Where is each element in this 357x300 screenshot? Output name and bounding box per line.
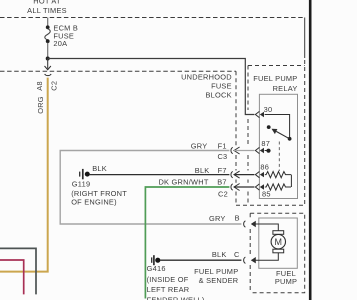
svg-text:LEFT REAR: LEFT REAR — [147, 285, 190, 294]
wire dashed fuse block right boundary x=236 — [235, 71, 237, 205]
svg-text:& SENDER: & SENDER — [199, 276, 239, 285]
svg-text:86: 86 — [260, 162, 269, 171]
ground G119 — [71, 164, 127, 206]
svg-text:G119: G119 — [72, 179, 91, 188]
node UNDERHOOD FUSE BLOCK label — [181, 73, 232, 100]
svg-text:ORG: ORG — [36, 96, 45, 114]
node FUEL PUMP & SENDER label — [194, 267, 238, 285]
svg-text:FUEL PUMP: FUEL PUMP — [253, 74, 297, 83]
connector pin C (cup + arrow) — [212, 250, 256, 263]
pin 86 connector arrows and relay coil top — [255, 162, 291, 177]
svg-text:C2: C2 — [50, 81, 59, 91]
fuse F1 ECM B 20A — [45, 18, 78, 59]
relay K1 dashed outline — [248, 65, 305, 67]
wire dark gray circuit bottom left — [0, 248, 36, 294]
connector pin B (cup + arrow) — [209, 214, 256, 228]
node switch throw contact — [267, 125, 271, 129]
resistor coil 86 zigzag — [265, 172, 291, 178]
svg-text:BLK: BLK — [212, 250, 227, 259]
wire dashed bottom edge of relay area y=205.3 — [236, 204, 305, 206]
wire GRY loop from F1 down and to fuel pump B — [60, 151, 241, 225]
connector C2 pin B7 (cup + arrow) — [158, 177, 239, 198]
svg-text:A8: A8 — [35, 81, 44, 91]
svg-text:OF ENGINE): OF ENGINE) — [71, 198, 117, 207]
wire pump B to motor — [255, 224, 278, 231]
svg-text:C2: C2 — [218, 190, 228, 199]
connector pin F7 (cup + arrow) — [195, 166, 240, 178]
svg-text:(INSIDE OF: (INSIDE OF — [147, 275, 189, 284]
svg-text:UNDERHOOD: UNDERHOOD — [181, 73, 232, 82]
node FUEL PUMP RELAY label — [253, 74, 297, 93]
node HOT AT ALL TIMES label — [27, 0, 67, 15]
wire pump C to motor — [255, 253, 278, 260]
pin 87 connector arrows and terminal — [255, 139, 270, 153]
connector C3 pin F1 (cup + arrow) — [191, 141, 240, 161]
svg-text:85: 85 — [262, 190, 271, 199]
wire DK GRN/WHT from B7 down to page bottom — [145, 187, 229, 299]
wire pin 30 to switch — [265, 115, 290, 138]
wire ORG from connector down and out left — [0, 78, 48, 272]
svg-text:HOT AT: HOT AT — [33, 0, 61, 6]
svg-text:30: 30 — [264, 105, 273, 114]
svg-text:BLK: BLK — [195, 166, 210, 175]
motor M fuel pump — [271, 231, 285, 253]
svg-text:PUMP: PUMP — [275, 277, 297, 286]
svg-text:DK GRN/WHT: DK GRN/WHT — [158, 177, 208, 186]
relay U1 body box — [259, 94, 297, 198]
node FUEL PUMP label (inside box) — [275, 269, 297, 286]
fuel pump dashed outline — [250, 213, 305, 292]
switch arm with arrowhead — [276, 131, 289, 138]
svg-text:ALL TIMES: ALL TIMES — [27, 6, 67, 15]
svg-text:FENDER WELL): FENDER WELL) — [147, 296, 205, 300]
wire coil right side — [290, 175, 292, 187]
svg-text:C: C — [234, 250, 240, 259]
connector arrow A8 / C2 below fuse junction — [35, 59, 59, 114]
svg-text:F1: F1 — [218, 141, 227, 150]
svg-text:GRY: GRY — [209, 214, 226, 223]
svg-text:FUEL PUMP: FUEL PUMP — [194, 267, 238, 276]
svg-text:87: 87 — [261, 139, 270, 148]
wire dashed power distribution boundary (top) — [0, 17, 305, 19]
svg-text:B: B — [235, 214, 240, 223]
wire right boundary vertical (solid then dashed) — [304, 18, 306, 59]
wire crimson circuit bottom left — [0, 260, 24, 294]
wire BLK F7 to pin 86 — [234, 174, 254, 176]
wire fuse to relay pin 30 — [48, 59, 255, 115]
wire thick page border right — [309, 0, 312, 300]
wire B7 to pin 85 — [234, 186, 254, 188]
fuel pump body box — [259, 218, 298, 268]
svg-text:FUSE: FUSE — [211, 81, 232, 90]
pin 85 connector arrows and relay coil bottom — [255, 184, 291, 199]
node fuse output junction — [46, 57, 50, 61]
svg-text:M: M — [275, 237, 283, 247]
wire BLK from G119 to F7 — [90, 174, 230, 176]
svg-text:20A: 20A — [53, 39, 67, 48]
pin 30 connector arrows — [255, 105, 272, 117]
wire GRY F1 to pin 87 — [234, 150, 254, 152]
ground G416 — [147, 255, 205, 300]
wire dashed underhood fuse block bottom boundary — [0, 70, 236, 72]
svg-text:B7: B7 — [217, 177, 227, 186]
svg-text:C3: C3 — [217, 152, 227, 161]
svg-text:RELAY: RELAY — [273, 84, 298, 93]
svg-text:BLOCK: BLOCK — [205, 90, 231, 99]
svg-text:F7: F7 — [218, 166, 227, 175]
wire BLK from G416 to pump C — [160, 259, 241, 261]
svg-text:GRY: GRY — [191, 141, 208, 150]
svg-text:BLK: BLK — [92, 164, 107, 173]
wire dashed relay actuator — [278, 142, 280, 172]
resistor coil 85 zigzag — [265, 184, 291, 190]
node switch fixed contact — [288, 137, 292, 141]
svg-text:G416: G416 — [147, 264, 166, 273]
